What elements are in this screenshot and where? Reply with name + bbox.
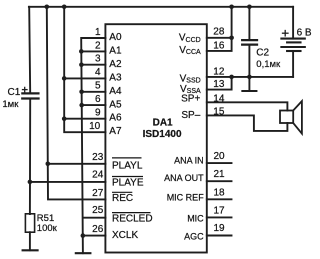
svg-text:A2: A2 bbox=[109, 59, 122, 70]
wire pin6 A5 bbox=[82, 104, 106, 106]
wire VCC drop to A3/A6/A7 bbox=[64, 7, 105, 132]
svg-text:13: 13 bbox=[213, 79, 225, 90]
svg-text:C1: C1 bbox=[8, 87, 21, 98]
svg-text:A7: A7 bbox=[109, 126, 122, 137]
svg-text:MIC REF: MIC REF bbox=[167, 193, 205, 203]
svg-text:AGC: AGC bbox=[184, 231, 204, 241]
wire pin25 RECLED stub bbox=[84, 217, 105, 219]
svg-text:PLAYL: PLAYL bbox=[112, 161, 143, 172]
svg-text:15: 15 bbox=[213, 107, 225, 118]
IC right labels bbox=[179, 33, 201, 122]
svg-text:A1: A1 bbox=[109, 46, 122, 57]
node drop3 pin9 bbox=[62, 116, 67, 121]
svg-text:1: 1 bbox=[95, 27, 101, 38]
IC control labels with overlines bbox=[112, 158, 153, 241]
svg-text:A6: A6 bbox=[109, 113, 122, 124]
svg-text:SP+: SP+ bbox=[181, 93, 200, 104]
pin numbers left top bbox=[89, 27, 104, 235]
svg-text:100к: 100к bbox=[37, 223, 58, 234]
svg-text:4: 4 bbox=[95, 67, 101, 78]
svg-text:VCCA: VCCA bbox=[179, 45, 201, 56]
node rail-drop3 bbox=[62, 5, 67, 10]
IC left labels A0-A7 bbox=[109, 32, 122, 137]
svg-text:PLAYE: PLAYE bbox=[112, 177, 144, 188]
capacitor C1 bbox=[22, 7, 38, 214]
wire pin5 A4 bbox=[82, 91, 106, 93]
wire VCCA pin16 bbox=[207, 38, 232, 51]
node vcc pin28 bbox=[229, 36, 234, 41]
wire ground bus left bbox=[81, 38, 105, 253]
node rail-C2 bbox=[247, 5, 252, 10]
svg-text:12: 12 bbox=[213, 66, 225, 77]
svg-text:28: 28 bbox=[213, 27, 225, 38]
svg-text:2: 2 bbox=[95, 40, 101, 51]
wire ANA IN stub pin20 bbox=[207, 162, 232, 164]
svg-text:0,1мк: 0,1мк bbox=[256, 59, 281, 70]
node drop3 pin4 bbox=[62, 76, 67, 81]
wire VCC vertical to rail bbox=[231, 7, 233, 38]
svg-text:A5: A5 bbox=[109, 99, 122, 110]
svg-text:26: 26 bbox=[92, 224, 104, 235]
svg-text:SP–: SP– bbox=[181, 110, 200, 121]
wire pin3 A2 bbox=[81, 64, 105, 66]
svg-text:A0: A0 bbox=[109, 32, 122, 43]
svg-text:REC: REC bbox=[112, 193, 133, 204]
capacitor C2 bbox=[242, 7, 257, 77]
wire VSSA pin13 bbox=[207, 77, 232, 90]
wire AGC stub pin19 bbox=[207, 235, 232, 237]
ground R51 bbox=[23, 249, 38, 251]
ground bus symbol bbox=[76, 252, 91, 254]
svg-text:A3: A3 bbox=[109, 72, 122, 83]
wire PLAYL pin23 bbox=[48, 163, 106, 165]
svg-text:XCLK: XCLK bbox=[112, 230, 138, 241]
svg-text:A4: A4 bbox=[109, 86, 122, 97]
node C1 pin24 bbox=[28, 180, 33, 185]
svg-text:16: 16 bbox=[213, 40, 225, 51]
svg-text:C2: C2 bbox=[256, 48, 269, 59]
wire VSSD pin12 rail bbox=[207, 76, 293, 78]
svg-text:VCCD: VCCD bbox=[179, 33, 201, 44]
svg-text:9: 9 bbox=[95, 108, 101, 119]
svg-text:17: 17 bbox=[214, 205, 226, 216]
battery GB 6V bbox=[281, 7, 304, 77]
svg-text:27: 27 bbox=[92, 188, 104, 199]
wire VCCD pin28 bbox=[207, 37, 232, 39]
wire MIC stub pin17 bbox=[207, 216, 232, 218]
wire SP+ pin14 bbox=[207, 102, 288, 110]
speaker BA1 bbox=[280, 101, 302, 134]
wire pin9 A6 bbox=[64, 118, 105, 120]
wire MIC REF stub pin18 bbox=[207, 198, 232, 200]
node rail-drop2 bbox=[45, 5, 50, 10]
resistor R51 bbox=[25, 214, 34, 232]
svg-text:6: 6 bbox=[95, 94, 101, 105]
svg-text:10: 10 bbox=[89, 121, 101, 132]
wire pin26 XCLK bbox=[83, 235, 106, 237]
svg-text:ISD1400: ISD1400 bbox=[143, 129, 182, 140]
svg-text:DA1: DA1 bbox=[153, 117, 173, 128]
node rail-vcc bbox=[229, 5, 234, 10]
svg-text:20: 20 bbox=[214, 151, 226, 162]
svg-text:23: 23 bbox=[92, 152, 104, 163]
node bus pin6 bbox=[79, 103, 84, 108]
wire VCC top rail bbox=[29, 6, 293, 8]
node drop2 pin23 bbox=[46, 162, 51, 167]
node bus pin3 bbox=[79, 62, 84, 67]
svg-text:5: 5 bbox=[95, 81, 101, 92]
svg-text:6 В: 6 В bbox=[297, 27, 312, 38]
wire PLAYE pin24 bbox=[30, 181, 106, 183]
svg-text:1мк: 1мк bbox=[2, 99, 19, 110]
svg-text:VSSD: VSSD bbox=[180, 73, 201, 84]
svg-text:18: 18 bbox=[214, 187, 226, 198]
ground C2 bbox=[248, 77, 250, 91]
wire SP- pin15 bbox=[207, 115, 288, 130]
svg-text:25: 25 bbox=[92, 205, 104, 216]
wire ANA OUT stub pin21 bbox=[207, 180, 232, 182]
svg-text:19: 19 bbox=[214, 223, 226, 234]
svg-text:24: 24 bbox=[92, 169, 104, 180]
svg-text:MIC: MIC bbox=[187, 213, 204, 223]
node vss C2 bbox=[247, 75, 252, 80]
node bus pin5 bbox=[79, 90, 84, 95]
svg-text:ANA OUT: ANA OUT bbox=[164, 173, 204, 183]
svg-text:RECLED: RECLED bbox=[112, 214, 153, 225]
svg-text:3: 3 bbox=[95, 54, 101, 65]
pin numbers right bbox=[213, 27, 225, 234]
node vss pin12 bbox=[229, 75, 234, 80]
node bus pin2 bbox=[79, 49, 84, 54]
wire pin4 A3 bbox=[64, 77, 105, 79]
svg-text:21: 21 bbox=[214, 169, 226, 180]
wire pin2 A1 bbox=[81, 50, 105, 52]
node bus pin26 bbox=[81, 233, 86, 238]
svg-text:ANA IN: ANA IN bbox=[174, 156, 204, 166]
IC DA1 box bbox=[105, 24, 206, 252]
wire VCC drop to PLAYL/REC bbox=[47, 7, 106, 200]
svg-text:14: 14 bbox=[213, 93, 225, 104]
